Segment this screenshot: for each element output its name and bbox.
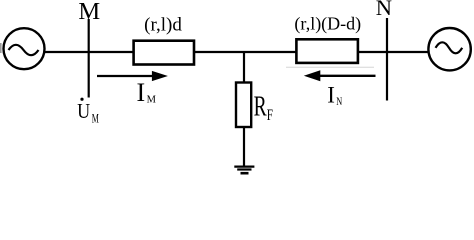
svg-text:I: I xyxy=(137,78,146,107)
svg-text:M: M xyxy=(147,94,157,105)
ground symbol xyxy=(234,167,254,174)
svg-text:I: I xyxy=(327,83,335,108)
bus bar M xyxy=(88,19,90,98)
fault resistor R_F xyxy=(236,83,251,128)
svg-text:N: N xyxy=(336,96,342,109)
main horizontal wire xyxy=(45,51,429,53)
line impedance box (r,l)d xyxy=(134,41,194,65)
current arrow I_M xyxy=(97,71,168,81)
fault branch wire down xyxy=(243,51,245,83)
wire stub artifact left edge xyxy=(0,43,2,53)
wire from R_F to ground xyxy=(243,127,245,166)
svg-text:(r,l)(D-d): (r,l)(D-d) xyxy=(294,13,361,34)
line impedance box (r,l)(D-d) xyxy=(296,39,358,63)
svg-text:F: F xyxy=(267,106,273,123)
bus bar N xyxy=(386,18,388,101)
svg-text:R: R xyxy=(254,91,268,122)
svg-text:(r,l)d: (r,l)d xyxy=(144,15,182,36)
AC source right (generator N) xyxy=(428,28,470,70)
label I_N xyxy=(327,83,342,109)
label R_F xyxy=(254,91,274,124)
svg-text:M: M xyxy=(92,112,99,126)
svg-text:M: M xyxy=(78,0,100,25)
svg-text:N: N xyxy=(376,0,392,20)
svg-text:U: U xyxy=(77,99,90,123)
AC source left (generator M) xyxy=(4,28,45,69)
current arrow I_N xyxy=(304,70,376,81)
faint scan streak under right box xyxy=(286,66,374,68)
label U_M with dot (phasor) xyxy=(77,98,99,127)
label I_M xyxy=(137,78,157,107)
